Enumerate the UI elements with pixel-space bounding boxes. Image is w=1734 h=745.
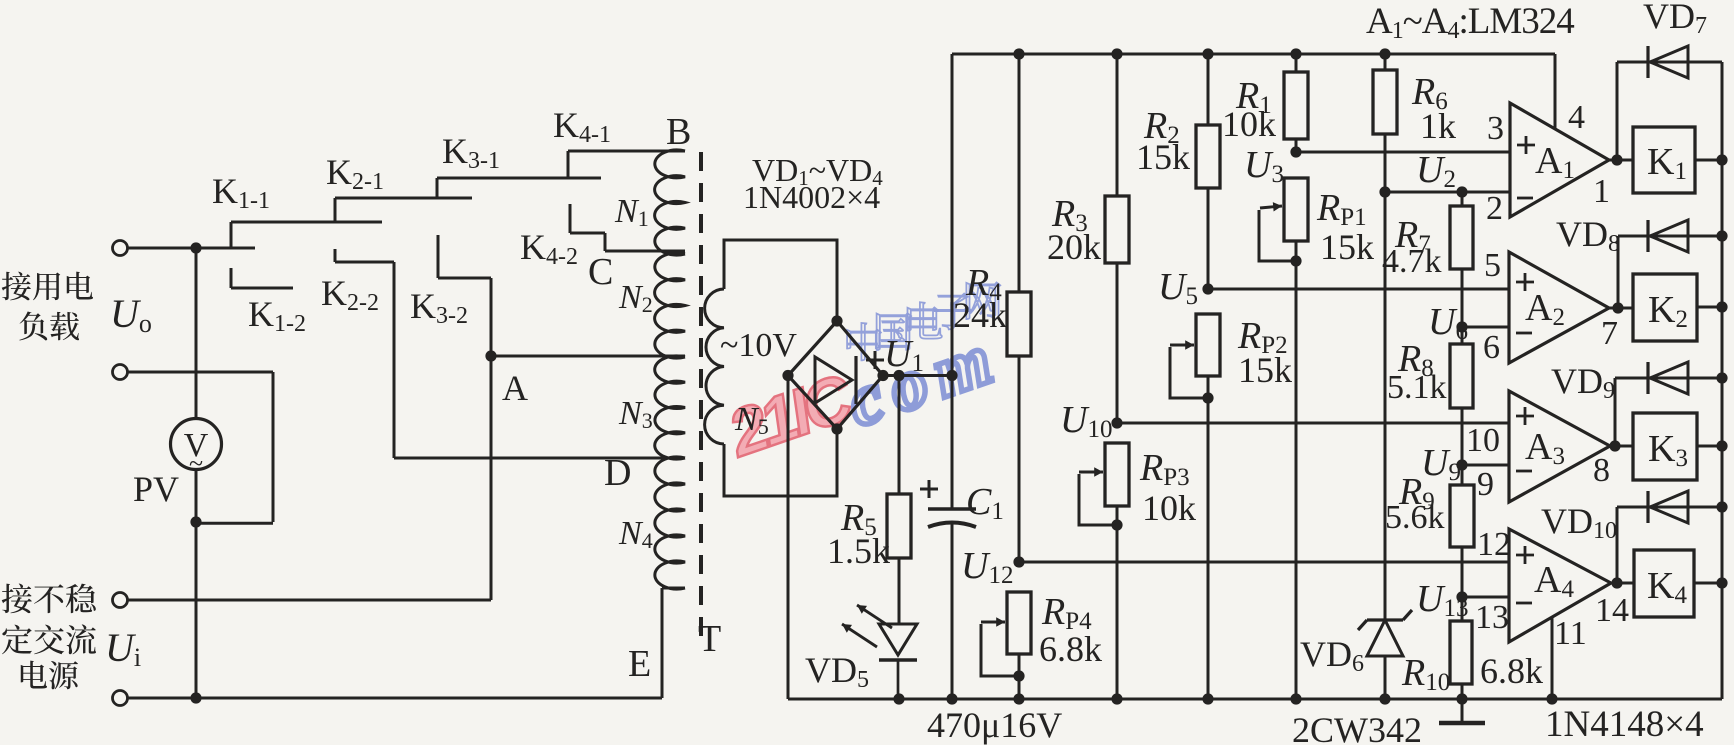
wire R3 to U10 bbox=[1116, 263, 1119, 423]
wire U10 net to A3 plus input bbox=[1117, 422, 1508, 425]
potentiometer RP1 bbox=[1284, 178, 1308, 241]
watermark com script bbox=[837, 315, 1011, 442]
wire rail left end down to U1 bbox=[951, 54, 954, 376]
node U12 bbox=[1013, 556, 1024, 567]
wire K3 to right rail bbox=[1697, 445, 1722, 448]
node U2 to R7 junction bbox=[1456, 186, 1467, 197]
node rail junction R3 bbox=[1111, 48, 1122, 59]
node A junction bbox=[485, 350, 496, 361]
bridge rectifier VD1-VD4 diamond bbox=[788, 321, 883, 429]
svg-text:1N4148×4: 1N4148×4 bbox=[1545, 704, 1704, 745]
svg-text:E: E bbox=[628, 643, 651, 685]
svg-text:A: A bbox=[502, 368, 528, 408]
resistor R2 bbox=[1196, 125, 1220, 188]
wire K2 to right rail bbox=[1697, 306, 1722, 309]
terminal Ui bottom bbox=[113, 691, 128, 706]
label 接用电 (connect load) bbox=[2, 272, 31, 301]
node U5 bbox=[1202, 283, 1213, 294]
transformer primary winding N2 bbox=[655, 253, 685, 358]
wire junction down to bottom wire bbox=[195, 522, 198, 698]
wire U9 net to A3 minus input bbox=[1462, 464, 1508, 467]
relay coil K2 bbox=[1633, 274, 1697, 341]
zener diode VD6 bbox=[1367, 618, 1403, 621]
wire R5 to LED bbox=[898, 558, 901, 624]
wire rail to R6 bbox=[1384, 54, 1387, 70]
wire A2 output to K2 bbox=[1609, 307, 1633, 310]
wire K4-2 to C tap bbox=[605, 250, 685, 253]
wire A3 output to K3 bbox=[1610, 445, 1633, 448]
node junction at 196,698 bbox=[190, 692, 201, 703]
capacitor C1 bbox=[928, 507, 976, 511]
transformer primary winding N3 bbox=[655, 356, 685, 459]
wire U13 net to A4 minus input bbox=[1462, 596, 1509, 599]
resistor R8 bbox=[1450, 344, 1473, 408]
node A4 output bbox=[1611, 577, 1622, 588]
wire rail to R1 bbox=[1295, 54, 1298, 72]
node U1 junction bbox=[946, 370, 957, 381]
node U3 bbox=[1290, 146, 1301, 157]
relay contact K3-2 bbox=[437, 235, 440, 278]
node U2 bbox=[1379, 186, 1390, 197]
wire rail to R4 bbox=[1018, 54, 1021, 292]
node rail junction R1 bbox=[1290, 48, 1301, 59]
svg-text:T: T bbox=[698, 618, 721, 660]
svg-text:15k: 15k bbox=[1320, 227, 1374, 267]
tap lead D bbox=[394, 457, 685, 460]
wire Ui top terminal to A branch bbox=[128, 599, 492, 602]
node U9 bbox=[1456, 459, 1467, 470]
node ground junction C1 bbox=[946, 693, 957, 704]
node RP4 wiper junction bbox=[1013, 670, 1024, 681]
wire U6 net to A2 minus input bbox=[1462, 326, 1509, 329]
voltmeter PV bbox=[171, 419, 222, 470]
wire R2 to U5 bbox=[1207, 188, 1210, 289]
wire R1 to U3 bbox=[1295, 139, 1298, 152]
wire R8 to U9 bbox=[1461, 408, 1464, 485]
transformer primary winding N1 bbox=[655, 150, 685, 255]
svg-text:1: 1 bbox=[1593, 173, 1610, 210]
node VD8 rail junction bbox=[1716, 230, 1727, 241]
node RP1 wiper junction bbox=[1290, 255, 1301, 266]
svg-text:1k: 1k bbox=[1420, 106, 1456, 146]
svg-text:10k: 10k bbox=[1142, 488, 1196, 528]
svg-text:9: 9 bbox=[1477, 466, 1494, 503]
node A1 output bbox=[1611, 154, 1622, 165]
svg-text:15k: 15k bbox=[1238, 350, 1292, 390]
op-amp U1D bbox=[1509, 529, 1611, 642]
node junction at 196,522 bbox=[190, 516, 201, 527]
svg-text:6: 6 bbox=[1483, 329, 1500, 366]
label 接不稳 bbox=[2, 584, 32, 614]
svg-text:~10V: ~10V bbox=[720, 327, 797, 364]
svg-text:20k: 20k bbox=[1047, 227, 1101, 267]
wire RP4 to ground rail bbox=[1018, 654, 1021, 699]
svg-text:470μ16V: 470μ16V bbox=[927, 705, 1062, 745]
svg-text:3: 3 bbox=[1487, 110, 1504, 147]
relay contact K4-1 bbox=[567, 151, 570, 179]
node junction at 196,248 bbox=[190, 242, 201, 253]
wire U2 net to A1 minus input bbox=[1385, 191, 1510, 194]
watermark 21IC red bbox=[718, 359, 863, 471]
node bridge top vertex bbox=[831, 315, 842, 326]
winding bottom lead to E bbox=[662, 587, 685, 590]
potentiometer RP3 bbox=[1105, 443, 1129, 506]
relay contact K2-2 bbox=[334, 249, 337, 262]
node K3 rail junction bbox=[1716, 440, 1727, 451]
svg-text:4.7k: 4.7k bbox=[1382, 243, 1442, 280]
LED VD5 bbox=[879, 624, 917, 655]
wire Uo top to K1-1 bbox=[128, 247, 256, 250]
node ground junction LED bbox=[893, 693, 904, 704]
secondary bottom lead bbox=[724, 428, 837, 496]
wire PV to lower junction bbox=[195, 470, 198, 523]
wire U12 net to A4 plus input bbox=[1019, 561, 1509, 564]
diode VD7 bbox=[1616, 62, 1619, 160]
wire K4 to right rail bbox=[1694, 582, 1722, 585]
relay contact K3-1 bbox=[436, 178, 439, 199]
resistor R7 bbox=[1461, 192, 1464, 206]
node U10 bbox=[1111, 417, 1122, 428]
wire K2-2 to D tap bbox=[393, 262, 396, 458]
resistor R6 bbox=[1373, 70, 1397, 134]
node ground junction VD6 bbox=[1379, 693, 1390, 704]
wire U3 net to A1 plus input bbox=[1296, 151, 1510, 154]
label 定交流 bbox=[2, 625, 32, 655]
svg-text:10: 10 bbox=[1466, 422, 1500, 459]
terminal Uo bottom bbox=[113, 365, 128, 380]
wire U2 down to zener VD6 bbox=[1384, 192, 1387, 620]
node ground junction RP3 bbox=[1111, 693, 1122, 704]
svg-text:24k: 24k bbox=[953, 295, 1007, 335]
relay contact K1-1 bbox=[230, 222, 233, 249]
svg-text:1.5k: 1.5k bbox=[827, 531, 890, 571]
node ground junction RP1 bbox=[1290, 693, 1301, 704]
transformer primary winding N4 bbox=[655, 457, 685, 589]
node RP3 wiper junction bbox=[1111, 519, 1122, 530]
ground symbol bbox=[1461, 699, 1464, 722]
svg-text:2: 2 bbox=[1486, 190, 1503, 227]
terminal Ui top bbox=[113, 593, 128, 608]
wire zener to ground rail bbox=[1384, 656, 1387, 699]
resistor R3 bbox=[1105, 196, 1129, 263]
svg-text:6.8k: 6.8k bbox=[1039, 629, 1102, 669]
node bridge bottom vertex bbox=[831, 423, 842, 434]
svg-text:C: C bbox=[588, 251, 613, 293]
svg-text:5: 5 bbox=[1484, 247, 1501, 284]
wire rail to R2 bbox=[1207, 54, 1210, 125]
wire across to PV branch bbox=[195, 522, 273, 525]
svg-text:4: 4 bbox=[1568, 99, 1585, 136]
svg-text:PV: PV bbox=[133, 469, 179, 509]
wire A1 output to K1 bbox=[1609, 159, 1633, 162]
transformer core dashed line bbox=[699, 152, 703, 648]
terminal Uo top bbox=[113, 241, 128, 256]
wire down segment x=273 bbox=[272, 372, 275, 522]
wire bridge minus down to ground rail bbox=[787, 376, 790, 700]
node U6 bbox=[1456, 321, 1467, 332]
label 电源 bbox=[21, 661, 47, 689]
wire rail to R3 bbox=[1116, 54, 1119, 196]
resistor R4 bbox=[1007, 292, 1031, 356]
wire RP3 to ground rail bbox=[1116, 506, 1119, 699]
wire Uo bottom terminal to right bbox=[128, 371, 274, 374]
wire top supply rail bbox=[952, 53, 1555, 56]
wire U1 output of bridge bbox=[883, 374, 952, 377]
resistor R10 bbox=[1450, 621, 1472, 684]
watermark chinese characters bbox=[847, 323, 881, 360]
svg-text:6.8k: 6.8k bbox=[1480, 651, 1543, 691]
relay coil K4 bbox=[1634, 550, 1694, 617]
relay coil K3 bbox=[1633, 413, 1697, 480]
diode VD10 bbox=[1616, 507, 1619, 583]
wire U5 net to A2 plus input bbox=[1208, 288, 1509, 291]
node K2 rail junction bbox=[1716, 301, 1727, 312]
wire R6 to U2 bbox=[1384, 134, 1387, 192]
LED arrow 1 bbox=[842, 624, 877, 647]
op-amp U1A bbox=[1510, 103, 1609, 217]
node ground junction RP4 bbox=[1013, 693, 1024, 704]
relay contact K1-2 bbox=[230, 268, 233, 288]
svg-text:15k: 15k bbox=[1136, 137, 1190, 177]
svg-text:2CW342: 2CW342 bbox=[1292, 710, 1422, 745]
wire K3-2 down to node A bbox=[490, 278, 493, 356]
node bridge left vertex bbox=[782, 370, 793, 381]
resistor R5 bbox=[887, 494, 911, 558]
secondary top lead bbox=[724, 240, 837, 322]
svg-text:10k: 10k bbox=[1222, 104, 1276, 144]
wire Ui bottom to E bbox=[128, 697, 663, 700]
wire A4 output to K4 bbox=[1611, 582, 1634, 585]
svg-text:5.1k: 5.1k bbox=[1387, 369, 1447, 406]
wire U1 to R5 bbox=[898, 376, 901, 495]
potentiometer RP4 bbox=[1007, 592, 1031, 654]
node VD10 rail junction bbox=[1716, 501, 1727, 512]
LED arrow 2 bbox=[857, 605, 892, 628]
wire U1 junction down to C1 bbox=[951, 376, 954, 510]
svg-text:5.6k: 5.6k bbox=[1385, 499, 1445, 536]
wire K1 to right rail bbox=[1695, 159, 1722, 162]
diode VD8 bbox=[1617, 236, 1620, 308]
wire R4 to U12 bbox=[1018, 356, 1021, 562]
svg-text:B: B bbox=[666, 111, 691, 153]
op-amp U1B bbox=[1509, 252, 1609, 363]
node K1 rail junction bbox=[1716, 154, 1727, 165]
node U13 bbox=[1456, 591, 1467, 602]
node rail junction R2 bbox=[1202, 48, 1213, 59]
svg-text:8: 8 bbox=[1593, 452, 1610, 489]
wire R10 to ground rail bbox=[1461, 684, 1464, 699]
transformer secondary winding N5 bbox=[705, 289, 724, 444]
capacitor plus sign bbox=[920, 488, 938, 491]
diode VD9 bbox=[1614, 378, 1617, 446]
wire RP2 to ground rail bbox=[1207, 376, 1210, 699]
node A2 output bbox=[1612, 302, 1623, 313]
node rail junction R6 bbox=[1379, 48, 1390, 59]
svg-text:13: 13 bbox=[1475, 599, 1509, 636]
bridge inner diode symbol bbox=[815, 357, 852, 403]
wire supply pin4 from rail bbox=[1554, 54, 1557, 129]
svg-text:7: 7 bbox=[1601, 315, 1618, 352]
node K4 rail junction bbox=[1716, 577, 1727, 588]
node rail junction R4 bbox=[1013, 48, 1024, 59]
relay coil K1 bbox=[1633, 127, 1695, 193]
resistor R1 bbox=[1284, 72, 1308, 139]
svg-text:1N4002×4: 1N4002×4 bbox=[743, 179, 880, 215]
label 负载 bbox=[19, 311, 47, 340]
svg-text:12: 12 bbox=[1477, 526, 1511, 563]
node RP2 wiper junction bbox=[1202, 392, 1213, 403]
wire R7 to U6 bbox=[1461, 269, 1464, 344]
wire vertical to PV bbox=[195, 248, 198, 419]
svg-text:11: 11 bbox=[1554, 615, 1587, 652]
node VD9 rail junction bbox=[1716, 372, 1727, 383]
tap lead A bbox=[491, 355, 685, 358]
node bridge right vertex bbox=[877, 370, 888, 381]
relay contact K2-1 bbox=[334, 198, 337, 223]
bridge plus sign bbox=[866, 359, 884, 362]
node A3 output bbox=[1609, 440, 1620, 451]
wire R9 to U13 bbox=[1461, 547, 1464, 621]
relay contact K4-2 bbox=[569, 204, 572, 233]
wire RP1 to ground rail bbox=[1295, 241, 1298, 699]
svg-text:14: 14 bbox=[1595, 592, 1629, 629]
wire supply pin11 to ground rail bbox=[1551, 617, 1554, 699]
node ground junction RP2 bbox=[1202, 693, 1213, 704]
wire right rail bbox=[1721, 62, 1724, 699]
svg-text:D: D bbox=[604, 452, 631, 494]
potentiometer RP2 bbox=[1196, 314, 1220, 376]
wire node A down to Ui wire bbox=[490, 356, 493, 600]
node ground junction R10 bbox=[1456, 693, 1467, 704]
op-amp U1C bbox=[1509, 391, 1610, 502]
wire bottom ground rail bbox=[788, 698, 1722, 701]
node pin11 ground junction bbox=[1546, 693, 1557, 704]
resistor R9 bbox=[1450, 485, 1474, 547]
node R5 branch junction bbox=[893, 370, 904, 381]
